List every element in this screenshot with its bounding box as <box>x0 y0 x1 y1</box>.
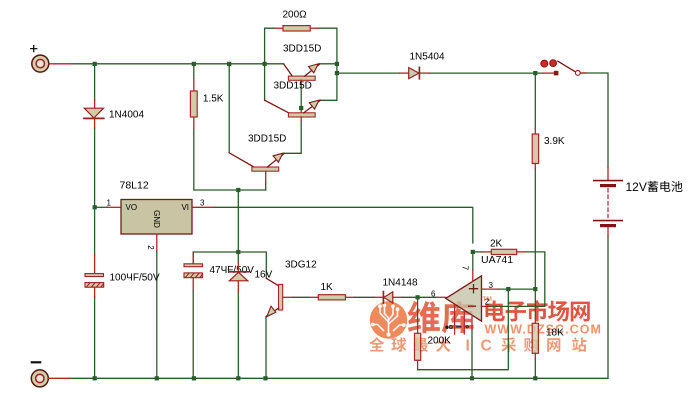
wire 200ohm bypass box right side <box>318 28 337 100</box>
wire Q2 collector left side <box>264 64 266 100</box>
capacitor 100uF/50V <box>85 255 160 297</box>
junction: feedback node / op-amp pin7 <box>471 250 475 254</box>
svg-text:WWW.DZSC.COM: WWW.DZSC.COM <box>485 323 602 337</box>
diode 1N5404 <box>400 52 445 79</box>
svg-text:3DD15D: 3DD15D <box>283 44 321 55</box>
wire 3.9K column from switch node <box>534 73 536 378</box>
junction: top rail / 200ohm box left <box>263 62 267 66</box>
svg-text:2K: 2K <box>490 239 503 250</box>
svg-text:1N4004: 1N4004 <box>109 110 144 121</box>
wire output rail y=73 from transistor block to diode and switch <box>337 73 608 168</box>
wire 78L12 pin2 (GND) down to ground rail <box>156 251 158 378</box>
transistor Q4 3DG12 <box>266 260 317 317</box>
svg-text:C: C <box>481 338 492 355</box>
wire 1.5K branch down to Q3 base <box>194 64 266 190</box>
wire 1K to 1N4148 <box>355 296 374 298</box>
svg-text:78L12: 78L12 <box>120 180 149 192</box>
diode 1N4148 <box>374 278 418 304</box>
wire battery bottom to ground rail <box>607 236 609 378</box>
battery 12V (lead-acid) <box>594 168 683 237</box>
svg-text:UA741: UA741 <box>481 254 513 266</box>
svg-text:12V: 12V <box>626 180 647 194</box>
junction: ground rail / op-amp pin4 <box>470 376 474 380</box>
junction: 200ohm box right / Q1 emitter <box>335 62 339 66</box>
svg-text:200Ω: 200Ω <box>283 10 308 21</box>
svg-text:1K: 1K <box>321 282 334 293</box>
svg-text:16V: 16V <box>255 270 273 281</box>
svg-text:3DD15D: 3DD15D <box>248 134 286 145</box>
svg-text:3: 3 <box>489 281 494 290</box>
svg-text:7: 7 <box>460 266 469 271</box>
svg-text:47ЧF/50V: 47ЧF/50V <box>210 265 255 276</box>
svg-text:GND: GND <box>152 210 161 228</box>
terminal - (negative input) <box>31 362 70 387</box>
svg-text:3DD15D: 3DD15D <box>274 80 312 91</box>
wire 200K bottom to pin3 divider tap column <box>418 289 509 370</box>
wire 47uF top to reference node y=252 <box>193 252 266 278</box>
resistor 2K <box>481 239 525 255</box>
wire feedback node to 2K and around to pin2 <box>473 251 482 253</box>
wire Q4 base to 1K resistor <box>293 296 309 298</box>
junction: pin6 wire / 200K top <box>416 295 420 299</box>
junction: ground rail / 47uF <box>192 376 196 380</box>
junction: ground rail / zener <box>236 376 240 380</box>
wire top rail from + terminal to transistor block <box>72 63 337 65</box>
WATERMARK <box>369 296 602 355</box>
wire 47uF bottom to ground rail <box>192 291 194 378</box>
transistor Q3 3DD15D (driver) <box>229 134 286 183</box>
svg-text:200K: 200K <box>428 336 452 347</box>
switch SW (charge switch) <box>541 60 586 76</box>
transistor Q2 3DD15D (middle) <box>265 80 321 121</box>
resistor 3.9K <box>532 129 565 170</box>
junction: Q3 base wire / zener branch <box>236 188 240 192</box>
wire zener column x=238.3 <box>237 190 239 378</box>
svg-text:18K: 18K <box>546 328 564 339</box>
wire Q3 collector from top rail <box>228 64 230 153</box>
wire op-amp pin4 down to ground rail <box>471 330 473 378</box>
junction: top rail / Q3 collector <box>227 62 231 66</box>
junction: output rail / 3.9K branch <box>533 71 537 75</box>
resistor 200K <box>415 323 452 370</box>
junction: ground rail / 78L12 GND <box>155 376 159 380</box>
wire 78L12 pin3 (VI) to op-amp feedback node <box>214 207 473 243</box>
svg-text:100ЧF/50V: 100ЧF/50V <box>110 273 160 284</box>
wire ground rail <box>70 377 608 379</box>
wire op-amp pin7 to feedback node <box>472 252 474 270</box>
junction: reference node y=252 <box>236 250 240 254</box>
svg-text:VI: VI <box>181 203 189 212</box>
svg-text:VO: VO <box>126 203 138 212</box>
junction: left column / 78L12 pin1 <box>93 205 97 209</box>
regulator U2 78L12 <box>107 180 215 252</box>
wire 200ohm bypass box left side <box>265 28 275 64</box>
svg-text:6: 6 <box>431 289 436 298</box>
svg-text:3.9K: 3.9K <box>544 136 565 147</box>
diode 1N4004 <box>84 100 144 128</box>
resistor 18K <box>532 318 564 359</box>
svg-text:2: 2 <box>485 298 490 307</box>
wire Q2 base to Q3 emitter <box>285 122 302 154</box>
junction: top rail / 1N4004 branch <box>93 62 97 66</box>
junction: pin3 wire / divider tap <box>533 287 537 291</box>
resistor 1K <box>309 282 356 300</box>
junction: Q1 base / Q2 base <box>299 106 303 110</box>
op-amp U1 UA741 <box>431 254 513 334</box>
svg-text:3: 3 <box>200 199 205 208</box>
transistor Q1 3DD15D (top) <box>283 44 321 85</box>
terminal + (positive input) <box>31 46 72 73</box>
wire 200K top lead <box>417 297 419 323</box>
junction: pin3 wire / 200K bottom branch <box>506 287 510 291</box>
zener diode 16V <box>229 262 273 292</box>
wire left column x=94.6 (diode/regulator/cap branch) <box>94 64 96 379</box>
wire op-amp pin3 to divider <box>498 288 535 290</box>
junction: top rail / 1.5K branch <box>192 62 196 66</box>
junction: ground rail / 100uF <box>93 376 97 380</box>
wire 1N4148 to op-amp output pin6 <box>402 296 437 298</box>
junction: output node at Q2 emitter <box>335 71 339 75</box>
svg-text:1: 1 <box>107 199 112 208</box>
capacitor 47uF/50V <box>184 252 254 291</box>
svg-text:2: 2 <box>146 245 155 250</box>
junction: ground rail / Q4 emitter <box>263 376 267 380</box>
svg-text:3DG12: 3DG12 <box>285 260 317 271</box>
junction: ground rail / 18K <box>533 376 537 380</box>
svg-text:1N5404: 1N5404 <box>410 52 445 63</box>
resistor 1.5K <box>190 79 223 130</box>
svg-text:1.5K: 1.5K <box>203 94 224 105</box>
wire Q4 emitter down to ground rail <box>265 317 267 379</box>
wire Q1 base to Q2 base <box>300 84 302 113</box>
wire 78L12 pin1 to left column <box>95 206 107 208</box>
resistor 200ohm <box>275 10 318 32</box>
svg-text:1N4148: 1N4148 <box>383 278 418 289</box>
svg-text:I: I <box>466 338 470 355</box>
